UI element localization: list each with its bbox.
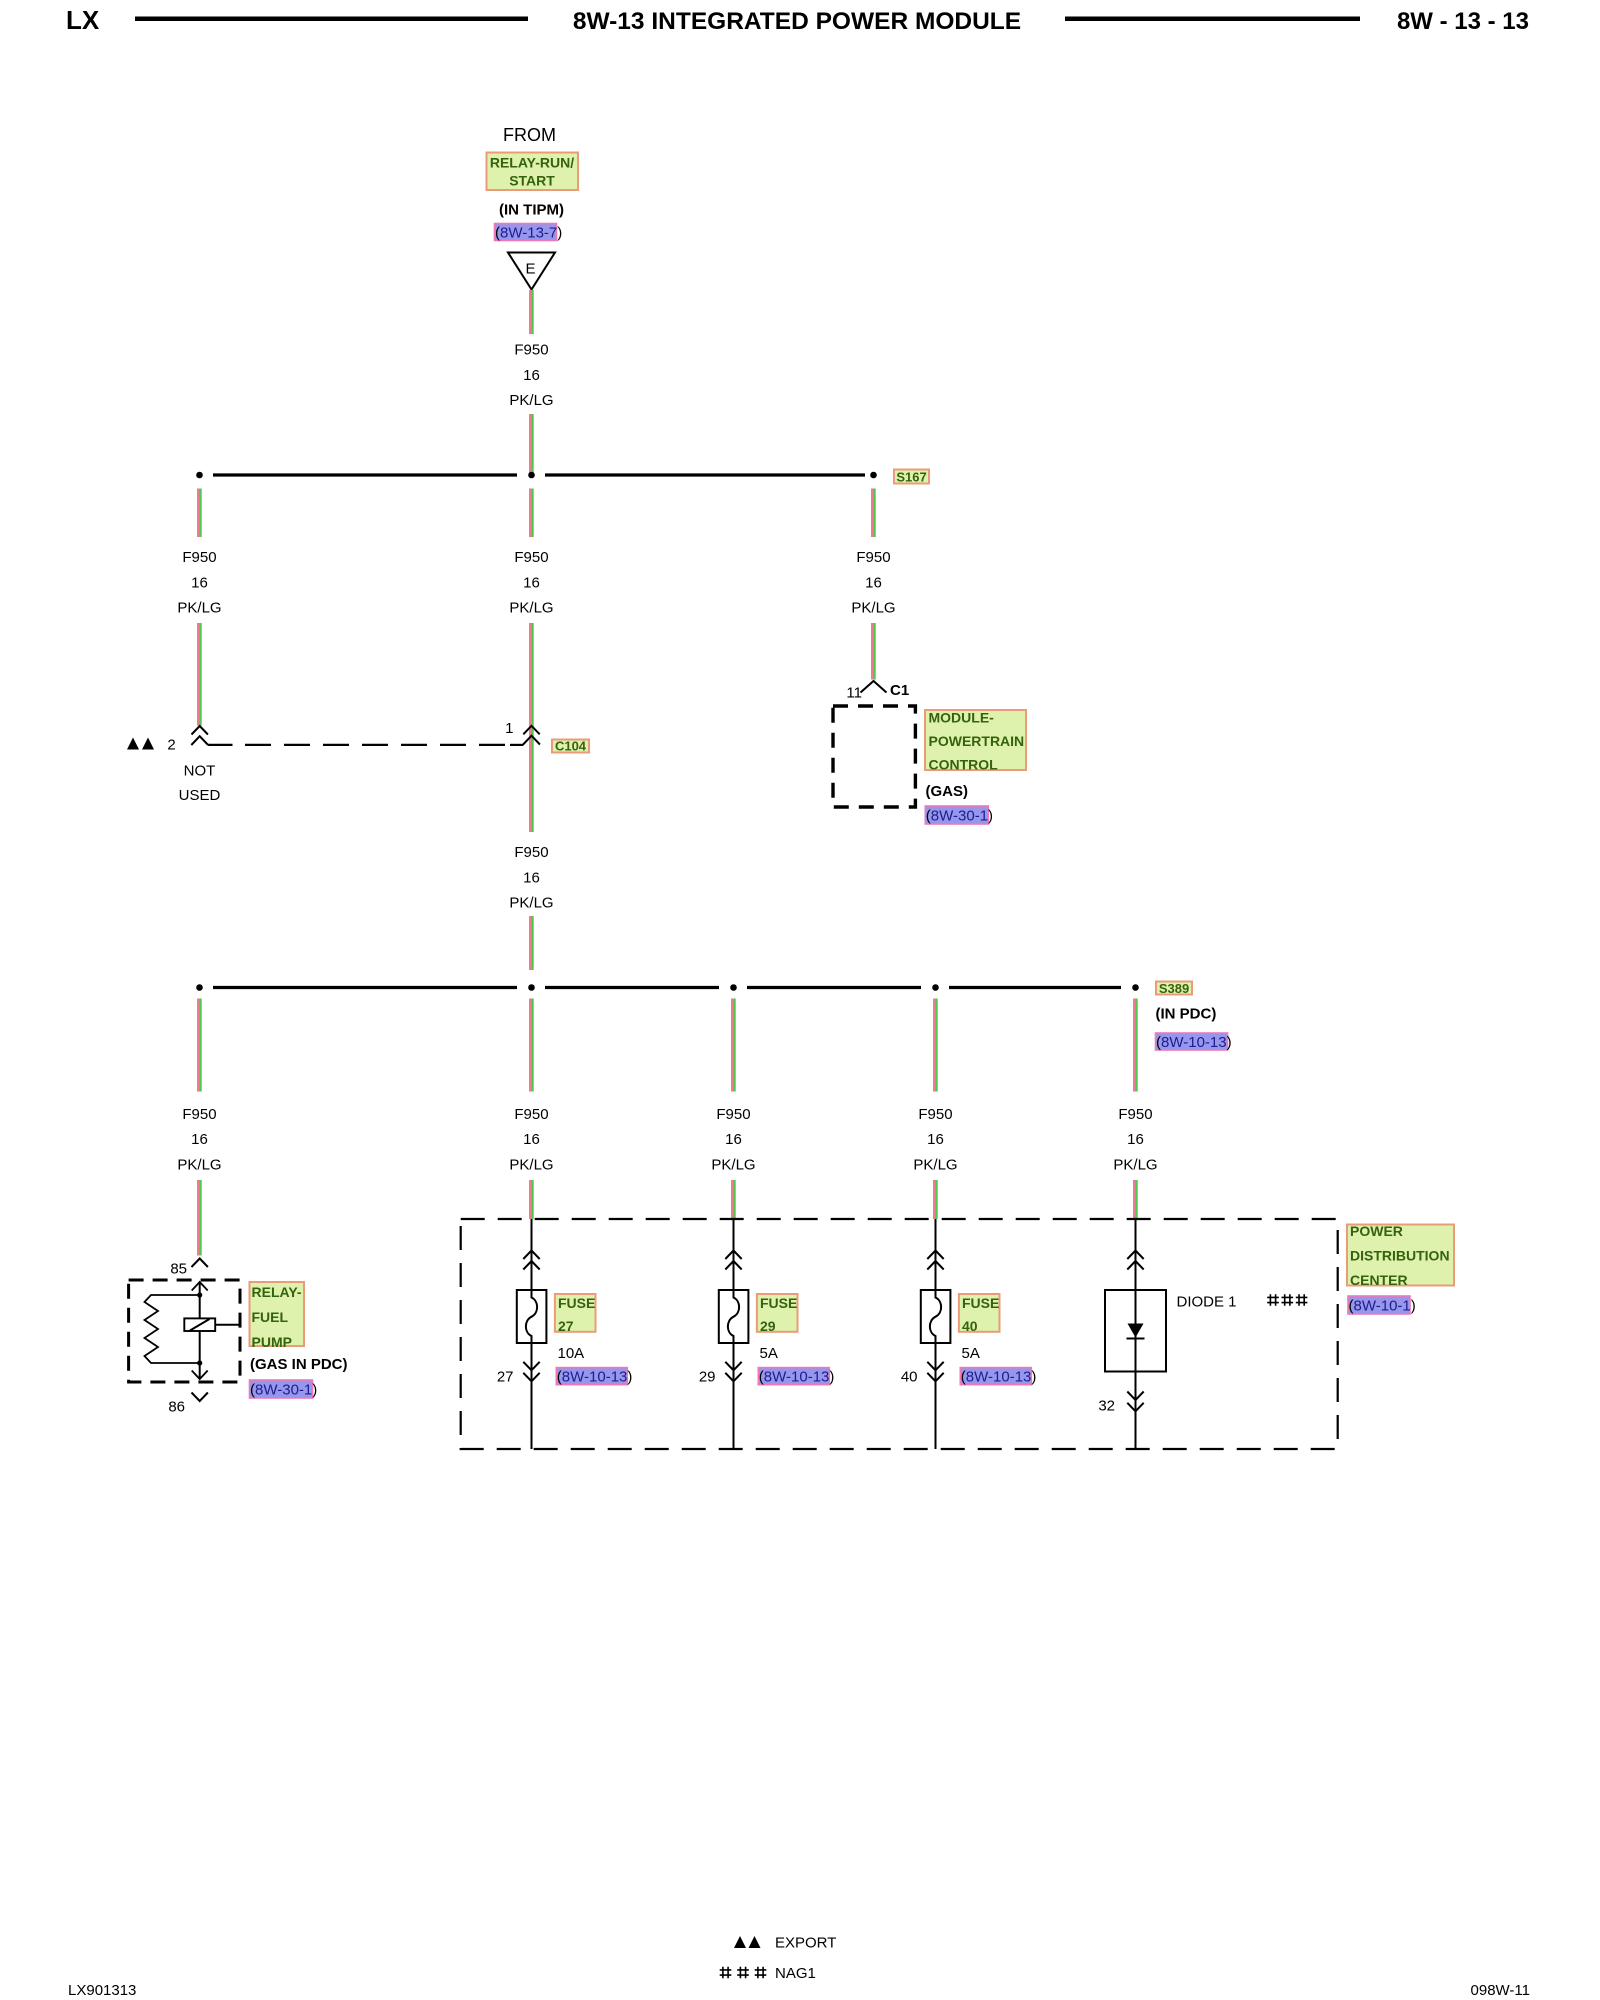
svg-text:S389: S389 xyxy=(1159,981,1189,996)
svg-text:16: 16 xyxy=(191,574,208,591)
svg-text:S167: S167 xyxy=(896,470,926,485)
svg-text:8W - 13 - 13: 8W - 13 - 13 xyxy=(1397,8,1529,35)
svg-text:F950: F950 xyxy=(918,1106,952,1123)
svg-text:MODULE-: MODULE- xyxy=(929,710,995,726)
svg-text:(8W-10-13): (8W-10-13) xyxy=(759,1368,835,1385)
svg-text:1: 1 xyxy=(505,720,513,737)
svg-text:F950: F950 xyxy=(856,549,890,566)
svg-text:PK/LG: PK/LG xyxy=(913,1157,957,1174)
svg-text:16: 16 xyxy=(191,1131,208,1148)
svg-text:10A: 10A xyxy=(558,1345,585,1362)
svg-text:PK/LG: PK/LG xyxy=(177,1157,221,1174)
svg-text:POWER: POWER xyxy=(1350,1223,1403,1239)
svg-text:PK/LG: PK/LG xyxy=(1113,1157,1157,1174)
svg-text:LX901313: LX901313 xyxy=(68,1982,136,1999)
svg-text:F950: F950 xyxy=(182,1106,216,1123)
svg-text:PK/LG: PK/LG xyxy=(509,600,553,617)
svg-text:C1: C1 xyxy=(890,682,909,699)
svg-text:EXPORT: EXPORT xyxy=(775,1935,836,1952)
svg-text:32: 32 xyxy=(1098,1397,1115,1414)
svg-text:16: 16 xyxy=(725,1131,742,1148)
svg-text:FUEL: FUEL xyxy=(252,1309,289,1325)
svg-text:(GAS): (GAS) xyxy=(926,783,969,800)
svg-text:PK/LG: PK/LG xyxy=(509,1157,553,1174)
svg-text:(8W-13-7): (8W-13-7) xyxy=(495,225,562,242)
svg-text:5A: 5A xyxy=(760,1345,778,1362)
svg-text:F950: F950 xyxy=(514,341,548,358)
svg-text:(8W-10-13): (8W-10-13) xyxy=(557,1368,633,1385)
svg-text:START: START xyxy=(509,173,555,189)
svg-text:F950: F950 xyxy=(1118,1106,1152,1123)
svg-text:PK/LG: PK/LG xyxy=(177,600,221,617)
svg-text:CONTROL: CONTROL xyxy=(929,757,999,773)
svg-text:11: 11 xyxy=(846,685,862,702)
svg-text:F950: F950 xyxy=(514,844,548,861)
svg-text:29: 29 xyxy=(699,1368,716,1385)
svg-text:(8W-10-13): (8W-10-13) xyxy=(961,1368,1037,1385)
svg-text:(8W-10-1): (8W-10-1) xyxy=(1349,1297,1416,1314)
svg-text:27: 27 xyxy=(558,1318,574,1334)
svg-text:(8W-30-1): (8W-30-1) xyxy=(926,807,993,824)
svg-text:LX: LX xyxy=(66,5,100,35)
svg-text:USED: USED xyxy=(179,787,221,804)
svg-text:(8W-10-13): (8W-10-13) xyxy=(1156,1034,1232,1051)
svg-text:PUMP: PUMP xyxy=(252,1334,292,1350)
svg-text:FUSE: FUSE xyxy=(962,1295,999,1311)
svg-text:16: 16 xyxy=(523,574,540,591)
svg-text:POWERTRAIN: POWERTRAIN xyxy=(929,733,1025,749)
svg-text:40: 40 xyxy=(901,1368,918,1385)
svg-text:27: 27 xyxy=(497,1368,514,1385)
svg-text:FROM: FROM xyxy=(503,125,556,145)
svg-text:NOT: NOT xyxy=(184,762,216,779)
svg-text:F950: F950 xyxy=(182,549,216,566)
svg-text:PK/LG: PK/LG xyxy=(851,600,895,617)
svg-text:RELAY-: RELAY- xyxy=(252,1284,302,1300)
svg-text:FUSE: FUSE xyxy=(760,1295,797,1311)
svg-text:FUSE: FUSE xyxy=(558,1295,595,1311)
svg-text:2: 2 xyxy=(167,736,175,753)
svg-text:PK/LG: PK/LG xyxy=(711,1157,755,1174)
svg-text:098W-11: 098W-11 xyxy=(1471,1982,1530,1999)
svg-text:PK/LG: PK/LG xyxy=(509,895,553,912)
svg-text:16: 16 xyxy=(865,574,882,591)
svg-text:16: 16 xyxy=(1127,1131,1144,1148)
svg-text:(IN PDC): (IN PDC) xyxy=(1156,1006,1217,1023)
svg-text:85: 85 xyxy=(170,1260,187,1277)
svg-text:RELAY-RUN/: RELAY-RUN/ xyxy=(490,155,574,171)
svg-text:(8W-30-1): (8W-30-1) xyxy=(250,1381,317,1398)
svg-text:E: E xyxy=(525,261,535,278)
svg-text:86: 86 xyxy=(168,1398,185,1415)
svg-text:C104: C104 xyxy=(555,739,587,754)
svg-text:29: 29 xyxy=(760,1318,776,1334)
svg-text:F950: F950 xyxy=(514,1106,548,1123)
svg-text:DIODE 1: DIODE 1 xyxy=(1177,1293,1237,1310)
svg-text:F950: F950 xyxy=(514,549,548,566)
svg-text:16: 16 xyxy=(523,869,540,886)
svg-text:16: 16 xyxy=(523,1131,540,1148)
svg-text:5A: 5A xyxy=(962,1345,980,1362)
svg-text:NAG1: NAG1 xyxy=(775,1965,816,1982)
svg-text:CENTER: CENTER xyxy=(1350,1272,1408,1288)
svg-text:(GAS IN PDC): (GAS IN PDC) xyxy=(250,1356,348,1373)
svg-text:PK/LG: PK/LG xyxy=(509,392,553,409)
svg-text:DISTRIBUTION: DISTRIBUTION xyxy=(1350,1247,1450,1263)
svg-text:16: 16 xyxy=(927,1131,944,1148)
svg-text:8W-13 INTEGRATED POWER MODULE: 8W-13 INTEGRATED POWER MODULE xyxy=(573,8,1021,35)
svg-text:F950: F950 xyxy=(716,1106,750,1123)
svg-text:(IN TIPM): (IN TIPM) xyxy=(499,202,564,219)
svg-text:40: 40 xyxy=(962,1318,978,1334)
svg-text:16: 16 xyxy=(523,367,540,384)
